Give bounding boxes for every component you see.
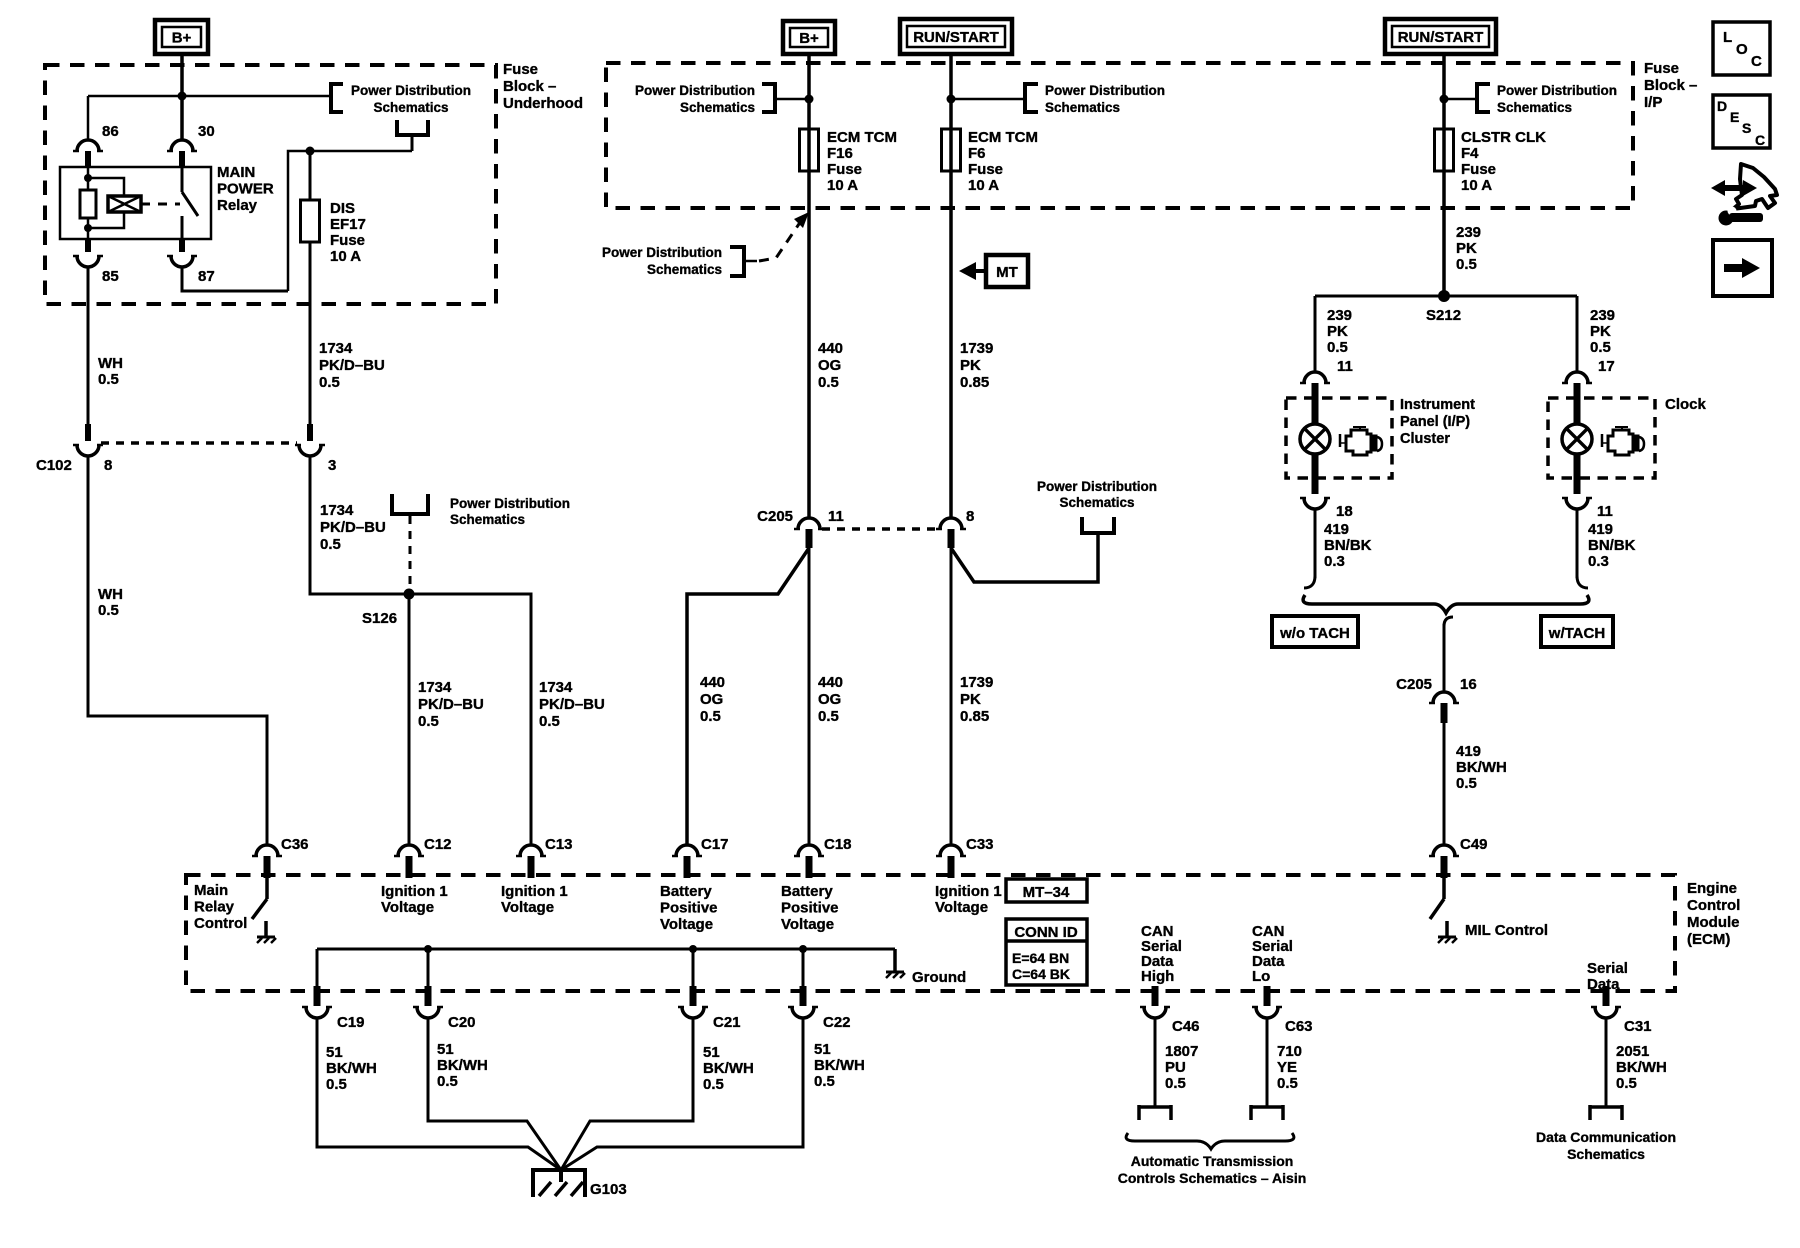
Fuse Block - Underhood dashed box (45, 65, 496, 304)
label Automatic Transmission Controls Schematics - Aisin (1118, 1153, 1307, 1186)
label C49 (1460, 836, 1488, 853)
connector pin 30 (167, 140, 197, 167)
label C46 (1172, 1018, 1200, 1035)
wire S126 to C13 (409, 594, 531, 845)
connector C205 pin 8 (936, 518, 966, 548)
svg-text:239: 239 (1327, 307, 1352, 324)
svg-text:51: 51 (326, 1044, 343, 1061)
power feed B+ box (I/P) (783, 21, 835, 54)
svg-text:C21: C21 (713, 1014, 741, 1031)
svg-text:0.5: 0.5 (437, 1073, 458, 1090)
junction node F4 feed (1440, 95, 1449, 104)
svg-text:PK: PK (960, 691, 981, 708)
svg-text:Schematics: Schematics (373, 100, 448, 115)
label G103 (590, 1181, 627, 1198)
connector pin 85 (73, 239, 103, 267)
label DIS EF17 Fuse 10A (330, 200, 366, 265)
connector C18 (794, 845, 824, 878)
label C33 (966, 836, 994, 853)
svg-text:0.5: 0.5 (1327, 339, 1348, 356)
svg-text:Block –: Block – (503, 78, 556, 95)
svg-text:BN/BK: BN/BK (1324, 537, 1372, 554)
svg-text:Cluster: Cluster (1400, 431, 1450, 447)
svg-text:11: 11 (1337, 358, 1353, 375)
svg-text:8: 8 (104, 457, 112, 474)
junction node F6 feed (947, 95, 956, 104)
wire C20 to G103 (428, 1018, 561, 1170)
svg-text:C13: C13 (545, 836, 573, 853)
wire bus to C21 (692, 949, 695, 991)
pin label 8 (C205) (966, 508, 974, 525)
pin label 30 (198, 123, 215, 140)
wire label WH 0.5 (lower) (98, 586, 123, 619)
svg-text:Positive: Positive (781, 900, 839, 917)
wire C205-11 to C18 (808, 548, 811, 845)
label ECM TCM F16 Fuse 10A (827, 129, 897, 194)
label Power Distribution Schematics (leader) (602, 245, 722, 277)
wire bus to C22 (802, 949, 805, 991)
svg-text:10 A: 10 A (827, 177, 858, 194)
junction node at B+ wire (178, 92, 187, 101)
MT-34 reference box (1006, 879, 1087, 902)
svg-text:Serial: Serial (1587, 960, 1628, 977)
svg-text:MAIN: MAIN (217, 164, 255, 181)
wire WH C102 to ECM C36 (88, 456, 267, 845)
pin label 85 (102, 268, 119, 285)
svg-text:C63: C63 (1285, 1018, 1313, 1035)
pin label 86 (102, 123, 119, 140)
off-page bracket PDS (dashed leader) (730, 247, 757, 276)
junction nodes ground bus (424, 945, 807, 953)
connector C20 (413, 986, 443, 1018)
icon box arrow right (1713, 240, 1772, 296)
connector C205 pin 16 (1429, 692, 1459, 723)
svg-text:PK: PK (1327, 323, 1348, 340)
wire to relay pin 86 (88, 96, 182, 140)
svg-text:0.5: 0.5 (1590, 339, 1611, 356)
svg-text:EF17: EF17 (330, 216, 366, 233)
junction node F16 feed (805, 95, 814, 104)
label C31 (1624, 1018, 1652, 1035)
label C22 (823, 1014, 851, 1031)
label C205 (top) (757, 508, 793, 525)
label Ignition 1 Voltage (C12) (381, 883, 448, 916)
wire label 51 BK/WH 0.5 (C22) (814, 1041, 865, 1090)
wire label 1807 PU 0.5 (1165, 1043, 1198, 1092)
svg-text:ECM TCM: ECM TCM (968, 129, 1038, 146)
label Engine Control Module (ECM) (1687, 880, 1740, 948)
wire label 419 BN/BK 0.3 (clock) (1588, 521, 1636, 570)
svg-text:0.85: 0.85 (960, 708, 989, 725)
svg-text:Controls Schematics – Aisin: Controls Schematics – Aisin (1118, 1170, 1307, 1186)
wire label 1734 PK/D-BU 0.5 (C13) (539, 679, 605, 730)
svg-text:0.5: 0.5 (1277, 1075, 1298, 1092)
svg-text:C36: C36 (281, 836, 309, 853)
svg-text:BK/WH: BK/WH (437, 1057, 488, 1074)
connector C22 (788, 986, 818, 1018)
svg-text:0.3: 0.3 (1588, 553, 1609, 570)
svg-text:Fuse: Fuse (968, 161, 1003, 178)
svg-text:RUN/START: RUN/START (1398, 29, 1484, 46)
svg-text:Power Distribution: Power Distribution (351, 83, 471, 98)
label Clock (1665, 396, 1707, 413)
brace automatic transmission (1126, 1133, 1294, 1149)
svg-text:0.5: 0.5 (320, 536, 341, 553)
label C205 (pin 16) (1396, 676, 1432, 693)
svg-text:BK/WH: BK/WH (703, 1060, 754, 1077)
svg-text:51: 51 (437, 1041, 454, 1058)
wire B+ to relay pin 30 (180, 54, 184, 140)
svg-text:PU: PU (1165, 1059, 1186, 1076)
wire label 419 BK/WH 0.5 (1456, 743, 1507, 792)
fuse CLSTR CLK F4 10A (1435, 129, 1454, 171)
svg-text:Fuse: Fuse (330, 232, 365, 249)
svg-text:Voltage: Voltage (501, 899, 554, 916)
svg-text:0.5: 0.5 (418, 713, 439, 730)
svg-text:239: 239 (1590, 307, 1615, 324)
svg-text:BK/WH: BK/WH (1456, 759, 1507, 776)
svg-text:Schematics: Schematics (1045, 100, 1120, 115)
wire B+ through fuse F16 to C205-11 (807, 54, 811, 518)
connector C19 (302, 986, 332, 1018)
svg-text:PK/D–BU: PK/D–BU (320, 519, 386, 536)
svg-text:WH: WH (98, 586, 123, 603)
svg-text:419: 419 (1324, 521, 1349, 538)
svg-text:Schematics: Schematics (680, 100, 755, 115)
connector C33 (936, 845, 966, 878)
svg-text:Power Distribution: Power Distribution (635, 83, 755, 98)
connector C205 pin 11 (794, 518, 824, 548)
svg-text:B+: B+ (799, 30, 819, 47)
svg-text:Engine: Engine (1687, 880, 1737, 897)
svg-text:440: 440 (818, 674, 843, 691)
svg-text:87: 87 (198, 268, 215, 285)
wire bus to C20 (427, 949, 430, 991)
wire pin 87 loop (182, 267, 288, 291)
wire label 1734 PK/D-BU 0.5 (mid) (320, 502, 386, 553)
label C18 (824, 836, 852, 853)
dashed leader line to F16 wire (759, 212, 809, 261)
svg-text:Schematics: Schematics (1567, 1146, 1645, 1162)
label CAN Serial Data High (1141, 923, 1182, 985)
svg-text:Battery: Battery (781, 883, 833, 900)
wire S212 to clock pin 17 (1576, 296, 1579, 372)
dashed leader to S126 (409, 516, 412, 588)
svg-text:C102: C102 (36, 457, 72, 474)
svg-text:11: 11 (828, 508, 844, 525)
svg-text:0.5: 0.5 (703, 1076, 724, 1093)
svg-text:High: High (1141, 968, 1174, 985)
svg-text:C205: C205 (1396, 676, 1432, 693)
svg-text:Lo: Lo (1252, 968, 1270, 985)
off-page U bracket under PDS label (397, 120, 428, 151)
svg-text:Power Distribution: Power Distribution (602, 245, 722, 260)
wire RUN/START through fuse F6 to C205-8 (949, 54, 953, 518)
svg-text:18: 18 (1336, 503, 1353, 520)
wire WH relay pin 85 to C102 (87, 267, 90, 424)
svg-text:C22: C22 (823, 1014, 851, 1031)
svg-text:Schematics: Schematics (1059, 495, 1134, 510)
svg-text:Ground: Ground (912, 969, 966, 986)
connector C17 (672, 845, 702, 878)
label C17 (701, 836, 729, 853)
label Power Distribution Schematics (F6) (1045, 83, 1165, 115)
label MIL Control (1465, 922, 1548, 939)
connector C102 pin 8 (73, 424, 103, 456)
connector C13 (516, 845, 546, 878)
icon box LOC (1713, 22, 1770, 75)
wire label 51 BK/WH 0.5 (C21) (703, 1044, 754, 1093)
svg-text:0.5: 0.5 (818, 708, 839, 725)
connector C46 (1140, 986, 1170, 1018)
connector cluster pin 18 (1300, 478, 1330, 509)
off-page U bracket PDS at S126 (392, 494, 428, 514)
connector C21 (678, 986, 708, 1018)
svg-text:0.85: 0.85 (960, 374, 989, 391)
wire label 2051 BK/WH 0.5 (1616, 1043, 1667, 1092)
wire label 239 PK 0.5 (clock) (1590, 307, 1615, 356)
svg-text:Fuse: Fuse (1644, 60, 1679, 77)
label C36 (281, 836, 309, 853)
svg-text:Power Distribution: Power Distribution (1037, 479, 1157, 494)
svg-text:Voltage: Voltage (935, 899, 988, 916)
svg-text:30: 30 (198, 123, 215, 140)
pin label 3 (328, 457, 336, 474)
relay coil resistor (80, 167, 96, 239)
label C19 (337, 1014, 365, 1031)
wire C205-8 to C33 (950, 548, 953, 845)
wire label 51 BK/WH 0.5 (C20) (437, 1041, 488, 1090)
svg-text:C205: C205 (757, 508, 793, 525)
off-page U bracket PDS (battery feed) (1082, 517, 1114, 533)
wire C205-8 branch to PDS (951, 531, 1098, 582)
svg-text:Ignition 1: Ignition 1 (381, 883, 448, 900)
wire C63 to transmission (1266, 1018, 1269, 1107)
svg-text:239: 239 (1456, 224, 1481, 241)
svg-text:0.5: 0.5 (1456, 775, 1477, 792)
svg-text:419: 419 (1456, 743, 1481, 760)
Fuse Block - I/P dashed box (606, 63, 1633, 208)
svg-text:CONN ID: CONN ID (1014, 924, 1078, 941)
connector C63 (1252, 986, 1282, 1018)
off-page bracket PDS (F4) (1444, 84, 1490, 112)
svg-text:Control: Control (194, 915, 247, 932)
MT option arrow box (986, 255, 1028, 287)
svg-text:Power Distribution: Power Distribution (450, 496, 570, 511)
label S212 (1426, 307, 1461, 324)
wire label WH 0.5 (upper) (98, 355, 123, 388)
label box w/TACH (1541, 616, 1613, 647)
clock engine gauge icon (1602, 427, 1644, 455)
svg-text:C: C (1755, 132, 1765, 148)
wire PDS to DIS fuse and relay pin 87 (288, 151, 412, 291)
wire label 440 OG 0.5 (fuse side) (818, 340, 843, 391)
svg-text:10 A: 10 A (968, 177, 999, 194)
CONN ID table box (1006, 919, 1087, 985)
Clock dashed box (1548, 398, 1655, 478)
option brace w/o TACH / w/TACH (1303, 595, 1589, 613)
label Ground (912, 969, 966, 986)
svg-text:0.5: 0.5 (700, 708, 721, 725)
pin label 11 (C205) (828, 508, 844, 525)
svg-text:Voltage: Voltage (381, 899, 434, 916)
svg-text:C=64 BK: C=64 BK (1012, 966, 1070, 982)
svg-text:0.5: 0.5 (1616, 1075, 1637, 1092)
svg-text:C18: C18 (824, 836, 852, 853)
svg-text:Voltage: Voltage (660, 916, 713, 933)
svg-text:Schematics: Schematics (450, 512, 525, 527)
icon vehicle with arrows and wrench (1711, 164, 1777, 226)
svg-text:Voltage: Voltage (781, 916, 834, 933)
svg-text:10 A: 10 A (330, 248, 361, 265)
connector clock pin 11 (1562, 478, 1592, 509)
ground symbol (main relay control) (257, 921, 276, 943)
wire C31 to data link (1605, 1018, 1608, 1107)
svg-text:0.5: 0.5 (326, 1076, 347, 1093)
pin label 16 (1460, 676, 1477, 693)
label ECM TCM F6 Fuse 10A (968, 129, 1038, 194)
svg-text:Schematics: Schematics (647, 262, 722, 277)
svg-text:C12: C12 (424, 836, 452, 853)
relay K1 MAIN POWER Relay box (60, 167, 211, 239)
svg-text:51: 51 (814, 1041, 831, 1058)
connector C102 pin 3 (295, 424, 325, 456)
connector pin 86 (73, 140, 103, 167)
power feed RUN/START box (right) (1385, 19, 1496, 54)
svg-text:C31: C31 (1624, 1018, 1652, 1035)
connector C205 dashed link (822, 527, 936, 531)
svg-text:B+: B+ (172, 30, 192, 47)
label C20 (448, 1014, 476, 1031)
svg-text:1807: 1807 (1165, 1043, 1198, 1060)
svg-text:0.5: 0.5 (98, 371, 119, 388)
svg-text:BK/WH: BK/WH (814, 1057, 865, 1074)
wire C46 to transmission (1154, 1018, 1157, 1107)
svg-text:0.5: 0.5 (1456, 256, 1477, 273)
svg-text:16: 16 (1460, 676, 1477, 693)
clock indicator lamp (1562, 399, 1592, 478)
label box w/o TACH (1272, 616, 1358, 647)
wire junction to PDS bracket (182, 95, 331, 98)
svg-text:Battery: Battery (660, 883, 712, 900)
icon box DESC (1713, 95, 1770, 148)
cluster engine gauge icon (1340, 427, 1382, 455)
connector cluster pin 11 (1300, 372, 1330, 399)
splice S212 node (1438, 290, 1450, 302)
ground symbol (ECM internal) (886, 972, 905, 978)
wire label 710 YE 0.5 (1277, 1043, 1302, 1092)
connector C102 dashed link (101, 441, 297, 445)
svg-text:MT: MT (996, 264, 1018, 281)
svg-text:86: 86 (102, 123, 119, 140)
off-page symbol (C63) (1251, 1105, 1283, 1120)
label MAIN POWER Relay (217, 164, 274, 214)
wire C205-16 to C49 (1443, 723, 1446, 845)
svg-text:PK/D–BU: PK/D–BU (418, 696, 484, 713)
svg-text:Block –: Block – (1644, 77, 1697, 94)
label Fuse Block - Underhood (503, 61, 583, 112)
svg-text:10 A: 10 A (1461, 177, 1492, 194)
svg-text:ECM TCM: ECM TCM (827, 129, 897, 146)
svg-text:S126: S126 (362, 610, 397, 627)
svg-text:RUN/START: RUN/START (913, 29, 999, 46)
svg-text:PK/D–BU: PK/D–BU (539, 696, 605, 713)
svg-text:1739: 1739 (960, 340, 993, 357)
label Battery Positive Voltage (C17) (660, 883, 718, 933)
wire label 1734 PK/D-BU 0.5 (C12) (418, 679, 484, 730)
svg-text:440: 440 (818, 340, 843, 357)
label Ignition 1 Voltage (C13) (501, 883, 568, 916)
svg-text:BK/WH: BK/WH (1616, 1059, 1667, 1076)
svg-text:Fuse: Fuse (827, 161, 862, 178)
pin label 11 (cluster) (1337, 358, 1353, 375)
svg-text:I/P: I/P (1644, 94, 1662, 111)
pin label 8 (104, 457, 112, 474)
svg-text:0.5: 0.5 (814, 1073, 835, 1090)
wire label 1739 PK 0.85 (C33) (960, 674, 993, 725)
label Instrument Panel (I/P) Cluster (1400, 397, 1475, 447)
label Fuse Block - I/P (1644, 60, 1697, 111)
wire C205-11 branch to C17 (687, 548, 809, 845)
svg-text:S212: S212 (1426, 307, 1461, 324)
relay switch contact (182, 167, 198, 239)
label CAN Serial Data Lo (1252, 923, 1293, 985)
svg-text:419: 419 (1588, 521, 1613, 538)
svg-text:E: E (1730, 109, 1739, 125)
svg-text:0.5: 0.5 (539, 713, 560, 730)
label Serial Data (1587, 960, 1628, 993)
svg-text:PK: PK (1456, 240, 1477, 257)
svg-text:Clock: Clock (1665, 396, 1707, 413)
svg-text:BK/WH: BK/WH (326, 1060, 377, 1077)
wire RUN/START through fuse F4 to S212 (1442, 54, 1446, 296)
svg-text:C33: C33 (966, 836, 994, 853)
fuse ECM TCM F16 10A (800, 129, 819, 171)
svg-text:O: O (1736, 41, 1748, 58)
svg-text:CLSTR CLK: CLSTR CLK (1461, 129, 1546, 146)
pin label 17 (clock) (1598, 358, 1615, 375)
svg-text:3: 3 (328, 457, 336, 474)
wire brace to C205-16 (1444, 617, 1453, 692)
Instrument Panel Cluster dashed box (1286, 398, 1392, 478)
svg-text:E=64 BN: E=64 BN (1012, 950, 1069, 966)
svg-text:C49: C49 (1460, 836, 1488, 853)
svg-text:Fuse: Fuse (503, 61, 538, 78)
connector C36 (252, 845, 282, 878)
svg-text:C19: C19 (337, 1014, 365, 1031)
svg-text:8: 8 (966, 508, 974, 525)
svg-text:F4: F4 (1461, 145, 1479, 162)
fuse DIS EF17 10A (301, 151, 320, 424)
svg-text:11: 11 (1597, 503, 1613, 520)
svg-text:S: S (1742, 120, 1751, 136)
svg-text:Schematics: Schematics (1497, 100, 1572, 115)
svg-text:Power Distribution: Power Distribution (1045, 83, 1165, 98)
fuse ECM TCM F6 10A (942, 129, 961, 171)
wire C21 to G103 (561, 1018, 693, 1170)
switch MIL Control (1430, 878, 1444, 919)
pin label 87 (198, 268, 215, 285)
wire C19 to G103 (317, 1018, 561, 1170)
pin label 11 (clock lower) (1597, 503, 1613, 520)
label Power Distribution Schematics (F16) (635, 83, 755, 115)
wire label 440 OG 0.5 (C17) (700, 674, 725, 725)
wire C22 to G103 (561, 1018, 803, 1170)
svg-text:Ignition 1: Ignition 1 (935, 883, 1002, 900)
power feed RUN/START box (left) (900, 19, 1012, 54)
svg-text:85: 85 (102, 268, 119, 285)
off-page symbol (C46) (1139, 1105, 1171, 1120)
